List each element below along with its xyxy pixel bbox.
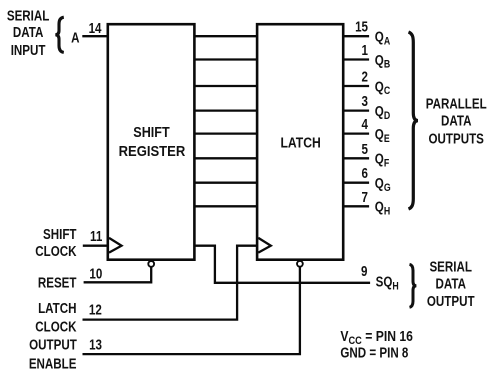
svg-text:14: 14 (89, 20, 103, 37)
label LATCH CLOCK (35, 300, 77, 335)
wire bus row1 (194, 35, 257, 37)
wire bus row2 (194, 58, 257, 60)
svg-text:DATA: DATA (13, 24, 44, 41)
svg-text:INPUT: INPUT (11, 42, 46, 59)
wire pin14 (82, 35, 108, 37)
wire pin12 latch clock (83, 246, 258, 320)
wire pin11 (83, 245, 108, 247)
brace serial output (410, 264, 417, 307)
bubble output enable (active low) (297, 261, 303, 267)
svg-text:RESET: RESET (38, 274, 77, 291)
wire QG pin6 (343, 182, 369, 184)
svg-text:4: 4 (362, 116, 369, 133)
wire SQH serial out (194, 246, 370, 283)
label PARALLEL DATA OUTPUTS (426, 95, 487, 146)
label SHIFT CLOCK (35, 226, 77, 260)
svg-text:SERIAL: SERIAL (7, 7, 50, 24)
svg-text:LATCH: LATCH (280, 135, 320, 151)
svg-text:DATA: DATA (435, 275, 466, 292)
svg-text:PARALLEL: PARALLEL (426, 95, 487, 112)
svg-text:ENABLE: ENABLE (29, 355, 77, 372)
wire QC pin2 (343, 85, 369, 87)
wire QF pin5 (343, 157, 369, 159)
svg-text:SERIAL: SERIAL (429, 258, 472, 275)
wire bus row6 (194, 157, 257, 159)
svg-text:CLOCK: CLOCK (35, 318, 77, 335)
svg-text:REGISTER: REGISTER (119, 143, 186, 159)
svg-text:10: 10 (89, 265, 102, 282)
svg-text:GND = PIN 8: GND = PIN 8 (340, 344, 408, 361)
svg-text:5: 5 (362, 141, 368, 158)
svg-text:15: 15 (355, 18, 368, 35)
svg-text:A: A (71, 29, 80, 46)
brace left input (55, 17, 64, 52)
svg-text:3: 3 (362, 93, 368, 110)
wire pin13 output enable (83, 266, 300, 354)
label SERIAL DATA INPUT (7, 7, 50, 58)
bubble reset (active low) (148, 261, 154, 267)
svg-text:13: 13 (89, 336, 102, 353)
label OUTPUT ENABLE (29, 336, 77, 371)
svg-text:SHIFT: SHIFT (133, 124, 170, 140)
wire QA pin15 (343, 35, 369, 37)
svg-text:OUTPUTS: OUTPUTS (428, 130, 484, 147)
svg-text:OUTPUT: OUTPUT (29, 336, 77, 353)
wire QH pin7 (343, 205, 369, 207)
wire QD pin3 (343, 109, 369, 111)
wire bus row4 (194, 109, 257, 111)
svg-text:9: 9 (361, 263, 367, 280)
svg-text:DATA: DATA (441, 112, 472, 129)
wire QB pin1 (343, 58, 369, 60)
svg-text:LATCH: LATCH (38, 300, 76, 317)
wire bus row3 (194, 85, 257, 87)
shift register box U-SR (108, 24, 195, 260)
wire bus row5 (194, 132, 257, 134)
latch box U-LATCH (257, 24, 343, 260)
svg-text:1: 1 (362, 42, 368, 59)
svg-text:SHIFT: SHIFT (43, 226, 77, 243)
svg-text:12: 12 (89, 301, 102, 318)
wire bus row8 (194, 205, 257, 207)
clock triangle shift register (109, 238, 122, 253)
svg-text:6: 6 (362, 165, 368, 182)
wire QE pin4 (343, 132, 369, 134)
brace parallel outputs (409, 32, 419, 209)
wire pin10 reset (84, 267, 152, 283)
svg-text:2: 2 (362, 68, 368, 85)
label SERIAL DATA OUTPUT (427, 258, 475, 309)
svg-text:7: 7 (362, 189, 368, 206)
svg-text:CLOCK: CLOCK (35, 243, 77, 260)
svg-text:11: 11 (90, 228, 102, 245)
clock triangle latch (258, 238, 271, 253)
wire bus row7 (194, 182, 257, 184)
svg-text:OUTPUT: OUTPUT (427, 293, 475, 310)
